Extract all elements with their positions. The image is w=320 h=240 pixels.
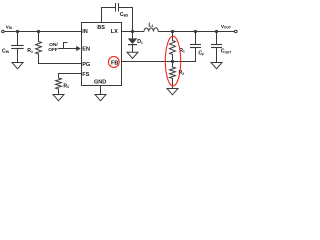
svg-text:FS: FS xyxy=(82,72,89,78)
svg-text:OFF: OFF xyxy=(48,47,58,52)
svg-text:R3: R3 xyxy=(27,48,33,54)
svg-text:PG: PG xyxy=(82,62,90,68)
svg-text:CF: CF xyxy=(198,51,204,57)
svg-text:LX: LX xyxy=(111,29,118,35)
svg-text:EN: EN xyxy=(82,46,90,52)
svg-text:CIN: CIN xyxy=(2,48,10,54)
svg-text:VIN: VIN xyxy=(6,25,13,31)
svg-text:CBS: CBS xyxy=(120,12,128,18)
svg-text:R4: R4 xyxy=(63,83,69,89)
svg-text:FB: FB xyxy=(111,60,118,66)
svg-text:BS: BS xyxy=(97,25,105,31)
svg-text:VOUT: VOUT xyxy=(221,24,231,30)
svg-text:GND: GND xyxy=(94,80,106,86)
svg-text:COUT: COUT xyxy=(221,49,232,55)
svg-text:IN: IN xyxy=(82,29,88,35)
svg-text:D1: D1 xyxy=(137,39,143,45)
svg-text:L1: L1 xyxy=(149,22,154,28)
